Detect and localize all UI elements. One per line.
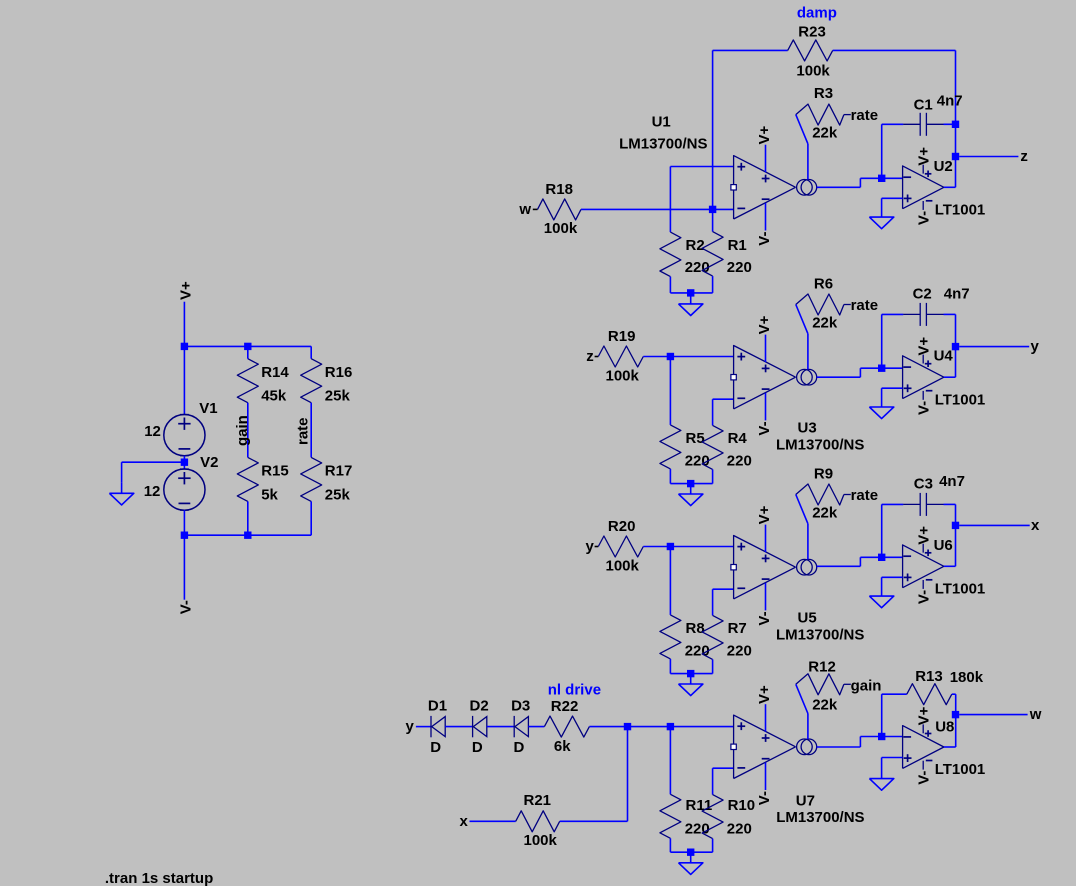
wire U8 noninverting to ground — [882, 758, 903, 779]
wire R19 to noninverting input — [643, 356, 733, 358]
svg-text:U5: U5 — [798, 610, 817, 627]
node junction U6 inverting — [878, 554, 903, 561]
svg-text:R4: R4 — [728, 430, 748, 447]
label D2 — [470, 697, 489, 714]
svg-text:w: w — [518, 201, 531, 218]
node junction R1/R23 — [709, 206, 716, 213]
label R8 — [686, 620, 705, 637]
svg-text:V-: V- — [756, 611, 773, 625]
value LT1001 of U6 — [935, 581, 986, 598]
svg-text:220: 220 — [685, 452, 710, 469]
value LT1001 of U2 — [935, 202, 986, 219]
label U3 — [798, 420, 817, 437]
op-amp U2 — [903, 165, 944, 210]
wire C1 left — [882, 124, 904, 178]
label U1 — [652, 114, 671, 131]
svg-text:LM13700/NS: LM13700/NS — [776, 809, 864, 826]
svg-text:V+: V+ — [756, 505, 773, 524]
label R16 — [325, 364, 353, 381]
svg-text:gain: gain — [234, 415, 251, 446]
ground below R1 R2 — [679, 293, 703, 316]
op-amp U1 OTA — [731, 145, 817, 231]
label R2 — [686, 237, 705, 254]
wire U2 output — [944, 186, 956, 188]
svg-text:rate: rate — [851, 107, 879, 124]
net label y out — [1031, 338, 1040, 355]
svg-text:R18: R18 — [545, 181, 573, 198]
spice directive .tran — [105, 870, 213, 886]
voltage source V1 — [164, 415, 205, 456]
wire U6 noninverting to ground — [882, 577, 903, 596]
svg-text:C3: C3 — [914, 475, 933, 492]
resistor R21 — [516, 811, 560, 832]
wire R9 to bias pin — [796, 495, 808, 560]
label U7 — [796, 792, 815, 809]
svg-text:y: y — [585, 538, 594, 555]
svg-text:R9: R9 — [814, 465, 833, 482]
label R3 — [814, 85, 833, 102]
svg-text:R11: R11 — [686, 797, 713, 814]
label C3 — [914, 475, 933, 492]
svg-text:V+: V+ — [756, 315, 773, 334]
svg-text:R6: R6 — [814, 275, 833, 292]
value 22k of R6 — [812, 314, 838, 331]
node junction U4 inverting — [878, 365, 903, 372]
svg-text:rate: rate — [295, 417, 312, 445]
comment damp — [797, 4, 837, 21]
svg-text:U2: U2 — [934, 158, 953, 175]
resistor R9 rate bias — [796, 484, 851, 505]
value LT1001 of U4 — [935, 392, 986, 409]
wire C1 right — [944, 123, 956, 125]
ground U8 — [869, 779, 893, 791]
value 100k of R19 — [606, 367, 640, 384]
value 45k — [261, 388, 287, 405]
svg-text:4n7: 4n7 — [944, 286, 970, 303]
resistor R13 feedback — [907, 684, 952, 705]
wire R3 to bias pin — [796, 115, 808, 180]
node junction x out — [952, 522, 959, 529]
value 100k of R23 — [796, 63, 830, 80]
svg-text:y: y — [406, 718, 415, 735]
svg-text:D: D — [472, 739, 483, 756]
net label y (input stage3) — [585, 538, 594, 555]
resistor R1 — [691, 209, 723, 293]
svg-text:R12: R12 — [808, 659, 836, 676]
wire R22 to junction — [589, 726, 627, 728]
value 4n7 of C2 — [944, 286, 970, 303]
op-amp U3 OTA — [731, 335, 817, 421]
wire inverting box stage3 — [713, 589, 734, 615]
value D of D3 — [514, 739, 525, 756]
wire rate node — [310, 403, 312, 458]
net label z (input stage2) — [586, 348, 594, 365]
node junction bottom rail — [181, 532, 252, 539]
resistor R8 — [660, 547, 691, 674]
resistor R4 — [691, 425, 723, 483]
svg-text:y: y — [1031, 338, 1040, 355]
node junction R7-R8 ground — [687, 670, 694, 677]
wire V2 bottom — [183, 510, 185, 535]
svg-text:V+: V+ — [916, 337, 933, 356]
svg-text:180k: 180k — [950, 669, 984, 686]
svg-text:rate: rate — [851, 297, 879, 314]
node junction R5 — [667, 353, 674, 360]
label U6 — [934, 537, 953, 554]
wire V- tail — [183, 535, 185, 600]
label R13 — [915, 668, 943, 685]
svg-text:R22: R22 — [551, 698, 579, 715]
supply labels U2 — [916, 147, 933, 225]
value 22k of R12 — [812, 696, 838, 713]
supply labels U4 — [916, 337, 933, 415]
svg-text:6k: 6k — [554, 738, 571, 755]
wire R23 left vertical — [712, 50, 714, 209]
resistor R15 — [237, 457, 258, 535]
svg-text:V+: V+ — [916, 526, 933, 545]
wire C2 right — [944, 314, 956, 377]
wire U6 output — [944, 565, 956, 567]
ground below R10 R11 — [679, 852, 703, 875]
wire R23 left — [713, 49, 788, 51]
value 180k of R13 — [950, 669, 984, 686]
wire bottom rail — [184, 534, 311, 536]
label R1 — [728, 237, 747, 254]
wire U4 output — [944, 376, 956, 378]
net label rate stage2 — [851, 297, 879, 314]
svg-text:R3: R3 — [814, 85, 833, 102]
node junction w out — [952, 711, 959, 718]
svg-text:LM13700/NS: LM13700/NS — [776, 626, 864, 643]
supply labels U1 — [756, 125, 773, 245]
resistor R20 — [598, 536, 643, 557]
svg-text:100k: 100k — [544, 220, 578, 237]
resistor R19 — [598, 346, 643, 367]
svg-text:R2: R2 — [686, 237, 705, 254]
label C2 — [913, 286, 932, 303]
wire gain node — [247, 403, 249, 458]
svg-text:22k: 22k — [812, 696, 838, 713]
label U8 — [935, 718, 954, 735]
voltage source V2 — [164, 469, 205, 510]
wire R16 top — [310, 346, 312, 358]
svg-text:R15: R15 — [261, 463, 289, 480]
label D1 — [428, 697, 447, 714]
resistor R14 — [237, 346, 258, 402]
value 220 of R8 — [685, 642, 710, 659]
label R19 — [608, 328, 636, 345]
value 220 of R2 — [685, 259, 710, 276]
value 12 of V2 — [144, 483, 161, 500]
value 4n7 of C3 — [939, 473, 965, 490]
label U2 — [934, 158, 953, 175]
resistor R3 rate bias — [796, 104, 851, 125]
svg-text:nl drive: nl drive — [548, 682, 601, 699]
svg-text:4n7: 4n7 — [937, 93, 963, 110]
label R20 — [608, 518, 636, 535]
node junction U2 inverting — [878, 175, 903, 182]
value 25k of R17 — [325, 486, 351, 503]
label R14 — [261, 364, 289, 381]
svg-text:100k: 100k — [796, 63, 830, 80]
wire C2 left — [882, 314, 904, 368]
value 100k of R20 — [606, 557, 640, 574]
svg-text:R1: R1 — [728, 237, 747, 254]
value 100k of R18 — [544, 220, 578, 237]
value 5k — [261, 486, 278, 503]
svg-text:.tran 1s startup: .tran 1s startup — [105, 870, 213, 886]
value D of D1 — [430, 739, 441, 756]
value 22k of R9 — [812, 504, 838, 521]
node junction R1-R2 ground — [687, 289, 694, 296]
svg-text:25k: 25k — [325, 388, 351, 405]
svg-text:R23: R23 — [798, 23, 826, 40]
wire z out — [959, 156, 1018, 158]
resistor R12 gain bias — [796, 674, 851, 695]
svg-text:LT1001: LT1001 — [935, 761, 986, 778]
wire inverting box stage2 — [713, 399, 734, 425]
label U4 — [934, 348, 954, 365]
svg-text:220: 220 — [727, 642, 752, 659]
label R17 — [325, 463, 353, 480]
label R18 — [545, 181, 573, 198]
op-amp U7 OTA — [731, 704, 817, 790]
comment nl drive — [548, 682, 601, 699]
resistor R7 — [691, 615, 723, 673]
svg-text:R10: R10 — [728, 797, 756, 814]
ground left — [109, 482, 133, 505]
node junction R10-R11 ground — [687, 849, 694, 856]
net label w (input) — [518, 201, 531, 218]
net label z out — [1020, 148, 1028, 165]
svg-text:C2: C2 — [913, 286, 932, 303]
svg-text:V2: V2 — [200, 454, 218, 471]
value LM13700/NS of U5 — [776, 626, 864, 643]
net label rate stage3 — [851, 487, 879, 504]
resistor R16 — [301, 359, 322, 403]
value 220 of R11 — [685, 820, 710, 837]
svg-text:V-: V- — [178, 600, 195, 614]
svg-text:D2: D2 — [470, 697, 489, 714]
supply labels U5 — [756, 505, 773, 625]
label R7 — [728, 620, 747, 637]
svg-text:25k: 25k — [325, 486, 351, 503]
label R10 — [728, 797, 756, 814]
node junction V1-V2 — [181, 456, 188, 469]
svg-text:U3: U3 — [798, 420, 817, 437]
wire w stub — [533, 208, 538, 210]
wire D2-D3 — [487, 726, 514, 728]
svg-text:D3: D3 — [511, 697, 530, 714]
svg-text:V-: V- — [916, 211, 933, 225]
label R23 — [798, 23, 826, 40]
wire top rail — [184, 345, 311, 347]
wire z stub — [595, 356, 599, 358]
wire OTA out to U8 inv — [817, 737, 882, 748]
diode D3 — [514, 716, 528, 737]
svg-text:R8: R8 — [686, 620, 705, 637]
wire R18 to inverting input — [581, 208, 734, 210]
supply labels U8 — [916, 706, 933, 784]
ground U6 — [869, 596, 893, 608]
net label w out — [1029, 706, 1042, 723]
net label V+ (top) — [178, 281, 195, 300]
svg-text:V-: V- — [916, 401, 933, 415]
wire OTA out to U6 inv — [817, 557, 882, 566]
value LM13700/NS of U1 — [619, 135, 707, 152]
svg-text:LT1001: LT1001 — [935, 581, 986, 598]
wire y stub — [595, 546, 599, 548]
svg-text:R16: R16 — [325, 364, 353, 381]
wire D1-D2 — [445, 726, 472, 728]
svg-text:R13: R13 — [915, 668, 943, 685]
value 220 of R1 — [727, 259, 752, 276]
svg-text:z: z — [1020, 148, 1028, 165]
label U5 — [798, 610, 817, 627]
node junction y out — [952, 343, 959, 350]
svg-text:100k: 100k — [606, 367, 640, 384]
wire noninverting box — [670, 167, 733, 233]
net label gain stage4 — [851, 678, 882, 695]
svg-text:220: 220 — [727, 259, 752, 276]
label D3 — [511, 697, 530, 714]
wire x out — [959, 524, 1029, 526]
wire U2 noninverting to ground — [882, 198, 903, 217]
wire OTA out to U4 inv — [817, 368, 882, 377]
net label x out — [1031, 517, 1040, 534]
ground U4 — [869, 407, 893, 419]
value D of D2 — [472, 739, 483, 756]
svg-text:12: 12 — [144, 423, 161, 440]
ground below R4 R5 — [679, 483, 703, 506]
wire y stub stage4 — [416, 726, 431, 728]
supply labels U3 — [756, 315, 773, 435]
node junction U8 inverting — [878, 733, 903, 740]
wire R13 left — [882, 694, 907, 736]
value 12 of V1 — [144, 423, 161, 440]
svg-text:R5: R5 — [686, 430, 705, 447]
svg-text:rate: rate — [851, 487, 879, 504]
svg-text:V1: V1 — [199, 400, 217, 417]
node junction C1 right — [952, 121, 959, 128]
capacitor C1 — [903, 113, 943, 136]
label R12 — [808, 659, 836, 676]
wire R23 right — [833, 50, 956, 124]
wire w out — [959, 714, 1027, 716]
value 220 of R5 — [685, 452, 710, 469]
value 6k of R22 — [554, 738, 571, 755]
wire x stub — [470, 820, 516, 822]
wire C3 left — [882, 504, 904, 557]
resistor R10 — [691, 795, 723, 853]
wire inverting box stage4 — [713, 768, 734, 794]
svg-text:x: x — [460, 813, 469, 830]
op-amp U6 — [903, 544, 944, 589]
svg-text:D: D — [514, 739, 525, 756]
supply labels U6 — [916, 526, 933, 604]
label R5 — [686, 430, 705, 447]
label R22 — [551, 698, 579, 715]
svg-text:V+: V+ — [916, 147, 933, 166]
svg-text:LT1001: LT1001 — [935, 392, 986, 409]
label R4 — [728, 430, 748, 447]
node junction R21/R22 — [624, 723, 631, 730]
svg-text:LT1001: LT1001 — [935, 202, 986, 219]
wire R21 to vertical — [560, 820, 628, 822]
value 100k of R21 — [524, 832, 558, 849]
svg-text:V-: V- — [756, 791, 773, 805]
node junction z out — [952, 153, 959, 160]
svg-text:U8: U8 — [935, 718, 954, 735]
value 4n7 of C1 — [937, 93, 963, 110]
wire V+ rail down — [183, 302, 185, 347]
net label y (input stage4) — [406, 718, 415, 735]
svg-text:4n7: 4n7 — [939, 473, 965, 490]
wire U4 noninverting to ground — [882, 388, 903, 407]
value 220 of R7 — [727, 642, 752, 659]
label R9 — [814, 465, 833, 482]
node junction top rail — [181, 343, 252, 350]
op-amp U8 — [903, 724, 944, 769]
label R21 — [524, 792, 552, 809]
wire C3 right — [944, 504, 956, 566]
value LT1001 of U8 — [935, 761, 986, 778]
label V1 — [199, 400, 217, 417]
resistor R11 — [660, 727, 691, 853]
svg-text:U4: U4 — [934, 348, 954, 365]
net label gain (rotated) — [234, 415, 251, 446]
svg-text:U6: U6 — [934, 537, 953, 554]
svg-text:w: w — [1029, 706, 1042, 723]
svg-text:R19: R19 — [608, 328, 636, 345]
label C1 — [914, 96, 933, 113]
svg-text:V-: V- — [916, 771, 933, 785]
svg-text:D: D — [430, 739, 441, 756]
label R11 — [686, 797, 713, 814]
svg-text:220: 220 — [727, 452, 752, 469]
value 25k of R16 — [325, 388, 351, 405]
wire R13 right — [952, 694, 956, 714]
label R6 — [814, 275, 833, 292]
svg-text:V+: V+ — [916, 706, 933, 725]
svg-text:100k: 100k — [524, 832, 558, 849]
resistor R2 — [660, 232, 691, 293]
svg-text:5k: 5k — [261, 486, 278, 503]
svg-text:R17: R17 — [325, 463, 353, 480]
wire right rail down — [955, 124, 957, 187]
wire y out — [959, 346, 1029, 348]
svg-text:U7: U7 — [796, 792, 815, 809]
ground below R7 R8 — [679, 673, 703, 696]
value 220 of R10 — [727, 820, 752, 837]
svg-text:LM13700/NS: LM13700/NS — [776, 436, 864, 453]
value 220 of R4 — [727, 452, 752, 469]
diode D2 — [473, 716, 487, 737]
wire D3-R22 — [528, 726, 544, 728]
wire R6 to bias pin — [796, 305, 808, 370]
svg-text:220: 220 — [727, 820, 752, 837]
svg-text:V+: V+ — [756, 685, 773, 704]
supply labels U7 — [756, 685, 773, 805]
svg-text:12: 12 — [144, 483, 161, 500]
svg-text:22k: 22k — [812, 314, 838, 331]
resistor R17 — [301, 457, 322, 535]
svg-text:U1: U1 — [652, 114, 671, 131]
svg-text:D1: D1 — [428, 697, 447, 714]
label V2 — [200, 454, 218, 471]
svg-text:C1: C1 — [914, 96, 933, 113]
value LM13700/NS of U3 — [776, 436, 864, 453]
